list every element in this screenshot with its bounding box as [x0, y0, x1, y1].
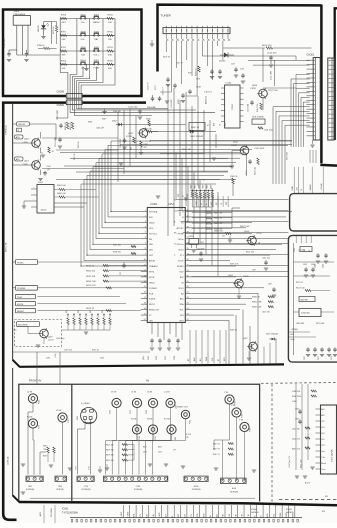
- svg-text:C113 4.7: C113 4.7: [204, 92, 213, 94]
- svg-text:17: 17: [144, 297, 146, 299]
- svg-text:Q007: Q007: [24, 161, 29, 163]
- svg-text:L.OUT(m) 4.7k: L.OUT(m) 4.7k: [289, 456, 291, 468]
- svg-text:XOUT: XOUT: [178, 261, 184, 263]
- svg-text:42: 42: [187, 210, 189, 212]
- svg-text:R118 10k: R118 10k: [255, 167, 257, 175]
- tuner connector pins with hooks: [165, 34, 167, 39]
- svg-text:PDMix: PDMix: [17, 262, 24, 264]
- AV box outline: [19, 384, 260, 501]
- svg-text:9: 9: [145, 254, 146, 256]
- AV box divider between FRONT AV and AV: [71, 384, 73, 502]
- svg-text:R056 10k: R056 10k: [86, 271, 96, 273]
- verticals feeding staircase from top area: [215, 134, 217, 148]
- svg-text:R106 2k: R106 2k: [230, 176, 237, 178]
- svg-text:17M: 17M: [68, 419, 70, 423]
- svg-text:R086 1K: R086 1K: [252, 297, 260, 299]
- svg-text:34C16: 34C16: [41, 210, 48, 212]
- ground under resistor stack: [105, 467, 109, 469]
- svg-text:PW2: PW2: [155, 436, 157, 440]
- svg-text:C113: C113: [246, 171, 248, 175]
- svg-text:S OUT: S OUT: [121, 511, 123, 518]
- svg-text:C1815: C1815: [256, 233, 262, 235]
- svg-text:PV2: PV2: [321, 445, 324, 447]
- svg-text:CPU: CPU: [168, 202, 174, 206]
- svg-text:LA7840: LA7840: [251, 511, 259, 514]
- IC601 pin pads: [71, 519, 72, 522]
- svg-text:(+5V): (+5V): [55, 353, 57, 358]
- svg-text:A02: A02: [321, 414, 324, 417]
- svg-text:36K: 36K: [62, 55, 66, 57]
- svg-text:SCL: SCL: [225, 123, 227, 126]
- svg-text:POWER: POWER: [149, 288, 157, 290]
- svg-text:R40? 10k: R40? 10k: [106, 444, 114, 446]
- svg-text:C3500: C3500: [232, 103, 234, 110]
- svg-text:R40? 10k: R40? 10k: [106, 460, 114, 462]
- svg-text:L104 100u: L104 100u: [264, 130, 273, 132]
- switch row rail y=35.4: [60, 34, 115, 36]
- svg-text:B IN: B IN: [153, 513, 155, 518]
- outer bundle verticals feeding lower rails: [273, 106, 310, 108]
- vertical wires right column: [295, 384, 297, 470]
- svg-text:R44? 75: R44? 75: [213, 449, 220, 451]
- wires FRONT AV jacks to strips: [32, 403, 34, 412]
- svg-text:Q00?: Q00?: [243, 338, 248, 340]
- capacitor C703: [26, 52, 28, 54]
- ground marks AV bottom rail: [21, 491, 25, 493]
- staircase upper horizontals from diode area: [124, 124, 186, 126]
- svg-text:FCA: FCA: [149, 292, 154, 295]
- svg-text:R011 4.7K: R011 4.7K: [86, 285, 96, 287]
- IC601 package top line: [70, 517, 302, 519]
- svg-text:24: 24: [187, 308, 189, 310]
- main board left border with bottom foot: [3, 102, 16, 520]
- svg-text:Q001: Q001: [128, 133, 134, 135]
- svg-text:R0?: R0?: [102, 310, 104, 313]
- svg-text:32: 32: [187, 264, 189, 266]
- svg-text:C IN: C IN: [231, 405, 236, 407]
- svg-text:R060 100: R060 100: [57, 193, 67, 195]
- svg-text:CN243: CN243: [18, 124, 26, 126]
- svg-text:5.0m: 5.0m: [321, 469, 325, 471]
- wires descending from tuner connector: [165, 41, 167, 52]
- woofer section dashed box: [15, 320, 62, 347]
- resistor R106 vertical: [198, 66, 200, 72]
- svg-text:B IN: B IN: [235, 513, 237, 518]
- svg-text:22: 22: [187, 319, 189, 321]
- svg-text:A01: A01: [321, 408, 324, 411]
- short verticals with ground near CN301 bottom: [309, 150, 311, 163]
- capacitor C0xx on PDMix line: [123, 263, 125, 265]
- svg-text:R0?: R0?: [78, 310, 80, 313]
- wire down-left region to AV: [36, 352, 38, 384]
- svg-text:R061 100: R061 100: [57, 185, 67, 187]
- svg-text:R751: R751: [61, 47, 67, 49]
- svg-text:R013 1K: R013 1K: [86, 308, 95, 310]
- svg-text:A3: A3: [199, 359, 202, 361]
- svg-text:C4?: C4?: [222, 236, 225, 238]
- svg-text:AV: AV: [146, 380, 149, 383]
- svg-text:R40? 10k: R40? 10k: [106, 455, 114, 457]
- svg-text:G IN: G IN: [229, 513, 231, 518]
- tuner connector internal pin ticks: [165, 29, 167, 33]
- svg-text:PW4: PW4: [110, 410, 112, 414]
- svg-text:CN008: CN008: [57, 90, 65, 93]
- horizontal rail lower-left y352: [13, 351, 150, 353]
- svg-text:X101 3.6MHZ: X101 3.6MHZ: [252, 117, 265, 119]
- svg-text:T-AT2106/206A: T-AT2106/206A: [62, 511, 78, 514]
- svg-text:C01?: C01?: [231, 64, 235, 66]
- svg-text:JS01: JS01: [28, 486, 32, 488]
- svg-text:C09?: C09?: [252, 270, 256, 272]
- svg-text:C44? 470: C44? 470: [262, 312, 270, 314]
- boxed label R02C 1K above D001: [189, 123, 205, 131]
- svg-text:VDD2: VDD2: [178, 288, 184, 290]
- ground below Q002: [230, 165, 234, 167]
- svg-text:MUTE: MUTE: [149, 304, 155, 306]
- svg-text:M3: M3: [325, 496, 328, 498]
- transistor Q009 woofer driver: [40, 329, 49, 338]
- svg-text:CN600: CN600: [57, 104, 65, 107]
- svg-text:R05?: R05?: [206, 185, 208, 189]
- ground under LED001: [41, 36, 45, 38]
- svg-text:5V1: 5V1: [321, 439, 324, 441]
- svg-text:R517 100: R517 100: [296, 288, 306, 290]
- switch row rail y=64.3: [60, 63, 115, 65]
- svg-text:27: 27: [187, 292, 189, 294]
- svg-text:JK200: JK200: [193, 486, 198, 488]
- svg-text:26: 26: [187, 297, 189, 299]
- svg-text:PW4: PW4: [39, 400, 41, 404]
- svg-text:RP21 10K: RP21 10K: [316, 323, 325, 325]
- ground rail under component row: [62, 329, 110, 331]
- svg-text:A 5(?): A 5(?): [305, 482, 310, 485]
- svg-text:C305: C305: [303, 264, 307, 266]
- svg-text:R043: R043: [88, 122, 92, 124]
- diode D001 1N4148 with label: [190, 130, 193, 133]
- X001 leads: [16, 26, 18, 55]
- inner board outline left (medium) with chamfers: [12, 104, 14, 360]
- signal label WOOFER: [17, 322, 40, 327]
- svg-text:Q00?: Q00?: [48, 337, 53, 339]
- transistor Q006: [32, 139, 41, 148]
- main board right border running through CN301: [320, 5, 337, 166]
- svg-text:SEL/TWR: SEL/TWR: [287, 151, 289, 160]
- junction dots staircase: [149, 140, 150, 141]
- svg-text:LED001: LED001: [38, 24, 40, 32]
- svg-text:IC606 LA7840: IC606 LA7840: [331, 448, 334, 462]
- svg-text:35: 35: [187, 248, 189, 250]
- region label R044 MB wire: [56, 149, 118, 151]
- svg-text:D00? 1N4148: D00? 1N4148: [266, 334, 278, 336]
- svg-text:FRONT AV: FRONT AV: [29, 380, 42, 383]
- svg-text:C044 22P: C044 22P: [96, 128, 105, 130]
- svg-text:PW6: PW6: [190, 420, 192, 424]
- verticals connecting rails to staircase zone: [175, 153, 177, 200]
- svg-text:PW8: PW8: [146, 410, 148, 414]
- svg-text:R44? 75: R44? 75: [213, 454, 220, 456]
- svg-text:R446 220k: R446 220k: [292, 396, 301, 398]
- switch grid right rail: [114, 19, 116, 65]
- svg-text:PRA/ADC: PRA/ADC: [149, 265, 158, 268]
- dashed fold line vertical right of AV box: [271, 384, 273, 505]
- svg-text:R064 MB: R064 MB: [147, 107, 156, 109]
- svg-text:KEY: KEY: [165, 513, 167, 518]
- node label A31: [15, 157, 24, 161]
- ground below Q006: [41, 154, 45, 156]
- svg-text:C306: C306: [311, 264, 315, 266]
- svg-text:R10?: R10?: [188, 73, 192, 75]
- dashed marks above bottom border right: [279, 499, 337, 501]
- svg-text:R755: R755: [61, 15, 67, 17]
- misc caps under tuner region: [235, 67, 237, 69]
- svg-text:TEST: TEST: [17, 297, 23, 299]
- svg-text:29: 29: [187, 281, 189, 283]
- thin rail above bottom border: [30, 497, 255, 499]
- svg-text:C101?: C101?: [48, 340, 54, 342]
- signal rails entering lower rounded box: [176, 199, 288, 201]
- svg-text:R OUT: R OUT: [186, 434, 191, 436]
- svg-text:C017 1?: C017 1?: [163, 87, 165, 95]
- svg-text:16: 16: [144, 292, 146, 294]
- crystal X101 box: [252, 119, 265, 124]
- svg-text:C42?: C42?: [158, 452, 162, 454]
- svg-text:R42?: R42?: [158, 447, 162, 449]
- svg-text:AFT: AFT: [213, 123, 216, 126]
- svg-text:MUTE: MUTE: [17, 304, 24, 306]
- svg-text:PP/NF: PP/NF: [178, 233, 185, 235]
- main board top border: [2, 101, 146, 104]
- ground below switch grid: [84, 68, 88, 70]
- svg-text:C025: C025: [148, 356, 150, 360]
- svg-text:KEYB: KEYB: [149, 277, 155, 279]
- svg-text:V IN: V IN: [239, 420, 243, 422]
- svg-text:RESET: RESET: [17, 311, 25, 313]
- fan-out wires from switch grid to CN008: [60, 64, 68, 94]
- svg-text:GND: GND: [204, 513, 206, 518]
- svg-text:30: 30: [187, 275, 189, 277]
- svg-text:R05?: R05?: [210, 185, 212, 189]
- svg-text:BLK: BLK: [180, 277, 184, 279]
- long rail y56 to CN301: [202, 55, 296, 57]
- svg-text:VIDEO OUT: VIDEO OUT: [177, 407, 189, 409]
- connector strip HJ06: [221, 478, 247, 483]
- svg-text:Q003: Q003: [252, 85, 258, 87]
- svg-text:R117 5.6K: R117 5.6K: [268, 90, 278, 92]
- long stubs from tuner area into CN301 top pins: [248, 60, 310, 62]
- svg-text:C413: C413: [295, 409, 299, 411]
- svg-text:C03? 104: C03? 104: [64, 350, 72, 352]
- svg-text:S-M: S-M: [81, 54, 85, 56]
- svg-text:Blank: Blank: [321, 463, 326, 465]
- svg-text:X002: X002: [38, 182, 44, 184]
- ground below Q007: [38, 178, 42, 180]
- switch row rail y=51.0: [60, 50, 115, 52]
- svg-text:PW9: PW9: [250, 428, 252, 432]
- svg-text:L OUT: L OUT: [164, 392, 171, 394]
- wires from CN600 into main board: [70, 109, 215, 113]
- svg-text:SA A/D: SA A/D: [309, 184, 312, 191]
- capacitor C016: [219, 69, 221, 71]
- svg-text:CJD1: CJD1: [84, 486, 89, 488]
- svg-text:C010 410: C010 410: [267, 52, 277, 54]
- LED loop wire to R769: [43, 22, 45, 26]
- svg-text:13: 13: [144, 275, 146, 277]
- svg-text:CN01: CN01: [136, 486, 141, 488]
- wires from CPU bottom pins down: [151, 323, 153, 335]
- svg-text:18: 18: [144, 303, 146, 305]
- svg-text:20: 20: [144, 313, 146, 315]
- svg-text:R067 5.6K: R067 5.6K: [240, 226, 250, 228]
- ground cluster x150 y45: [150, 43, 154, 45]
- wire bus from X001 to switch rail: [8, 50, 10, 52]
- svg-text:IC001: IC001: [151, 202, 158, 206]
- verticals from CN600 lines down into staircase: [117, 112, 119, 182]
- svg-text:29K: 29K: [108, 39, 112, 41]
- svg-text:B+: B+: [206, 203, 208, 205]
- svg-text:PW5: PW5: [242, 414, 244, 418]
- rounded box upper right (empty label box): [290, 194, 337, 231]
- svg-text:SOUND(B): SOUND(B): [26, 489, 35, 491]
- svg-text:A IN: A IN: [145, 514, 148, 518]
- svg-text:SC2: SC2: [321, 433, 325, 435]
- svg-text:R021 1M: R021 1M: [182, 149, 191, 151]
- svg-text:62K: 62K: [108, 68, 112, 70]
- svg-text:PLT/SCL: PLT/SCL: [149, 233, 158, 235]
- svg-text:ZD003: ZD003: [219, 61, 226, 63]
- zener ZD003: [224, 53, 228, 58]
- svg-text:VDD: VDD: [197, 513, 199, 518]
- svg-text:R IN: R IN: [223, 513, 225, 518]
- svg-text:VDD: VDD: [149, 228, 154, 230]
- svg-text:R758: R758: [107, 60, 113, 62]
- svg-text:8: 8: [145, 248, 146, 250]
- signal label box MUTE: [16, 301, 36, 305]
- svg-text:L201: L201: [301, 249, 305, 251]
- small box B below CN243: [17, 128, 22, 132]
- svg-text:R05?: R05?: [202, 185, 204, 189]
- svg-text:VOL-: VOL-: [80, 39, 85, 41]
- svg-text:WOOFER: WOOFER: [18, 324, 28, 326]
- svg-text:MENU: MENU: [93, 22, 100, 24]
- switch row rail y=18.5: [60, 18, 115, 20]
- ground below Q008: [247, 357, 251, 359]
- svg-text:+12V: +12V: [174, 210, 179, 212]
- ground right of CN600: [102, 111, 106, 113]
- svg-text:1/8: 1/8: [186, 437, 188, 439]
- svg-text:EXT: EXT: [178, 194, 180, 197]
- main section bottom border: [19, 364, 284, 366]
- svg-text:R41?: R41?: [143, 447, 147, 449]
- svg-text:SCL/SDA: SCL/SDA: [50, 508, 53, 517]
- svg-text:IC605: IC605: [286, 509, 293, 511]
- svg-text:V2 IN: V2 IN: [56, 410, 62, 412]
- svg-text:R40? 10k: R40? 10k: [106, 450, 114, 452]
- svg-text:R OUT: R OUT: [164, 419, 171, 421]
- svg-text:R019 100: R019 100: [113, 244, 121, 246]
- ground under C703: [24, 59, 28, 61]
- svg-text:RESET: RESET: [177, 266, 184, 268]
- svg-text:C IN: C IN: [248, 513, 250, 518]
- svg-text:31: 31: [187, 270, 189, 272]
- svg-text:R750: R750: [61, 60, 67, 62]
- svg-text:VDD1: VDD1: [178, 250, 184, 252]
- signal label box RESET: [16, 308, 36, 312]
- svg-text:15: 15: [144, 286, 146, 288]
- svg-text:5: 5: [145, 232, 146, 234]
- svg-text:C028: C028: [174, 356, 176, 360]
- svg-text:C027: C027: [165, 356, 167, 360]
- svg-text:R-BUS: R-BUS: [149, 299, 156, 301]
- connector strip JK50: [55, 476, 67, 481]
- svg-text:AIN-IN: AIN-IN: [149, 260, 156, 263]
- connector CN301 body: [313, 58, 320, 141]
- svg-text:4: 4: [145, 226, 146, 228]
- svg-text:Lbat: Lbat: [321, 450, 325, 453]
- svg-text:+12V(A): +12V(A): [320, 183, 323, 190]
- svg-text:C005 220P: C005 220P: [57, 109, 59, 120]
- svg-text:L101 1MH: L101 1MH: [271, 70, 273, 80]
- svg-text:VDD: VDD: [179, 271, 184, 273]
- ground left of X002: [22, 205, 26, 207]
- svg-text:VIDEO(R): VIDEO(R): [56, 489, 64, 491]
- svg-text:AFT/SC: AFT/SC: [176, 227, 184, 230]
- inner outline continues to AV chamfer: [12, 368, 14, 496]
- AV section bottom thick border: [19, 502, 337, 505]
- diode D00x near right: [272, 338, 275, 341]
- transistor Q005: [235, 279, 244, 288]
- svg-text:C41?: C41?: [143, 452, 147, 454]
- svg-text:GND3: GND3: [149, 282, 155, 284]
- grounds right column: [295, 475, 299, 477]
- ground pair in rounded box2: [316, 260, 320, 262]
- svg-text:Y IN: Y IN: [242, 514, 244, 518]
- rounded box lower right (video section): [288, 235, 337, 362]
- svg-text:10: 10: [144, 259, 146, 261]
- svg-text:R02C 1K: R02C 1K: [191, 127, 200, 129]
- extra caps rounded box2 middle: [305, 267, 307, 269]
- svg-text:MSD: MSD: [77, 415, 79, 420]
- rail under resistor network: [193, 206, 213, 208]
- wires from Q006 Q007 heading right: [42, 137, 118, 139]
- svg-text:R0?: R0?: [90, 310, 92, 313]
- svg-text:LM01 880: LM01 880: [296, 323, 304, 325]
- svg-text:X001: X001: [14, 10, 20, 13]
- svg-text:R09: R09: [175, 437, 177, 440]
- transistor Q001 C2236: [139, 129, 148, 138]
- svg-text:AUD: AUD: [266, 513, 269, 518]
- connector strip CN01 long: [104, 476, 168, 481]
- svg-text:C441 104: C441 104: [262, 258, 270, 260]
- ground below CN301: [312, 140, 314, 144]
- svg-text:VDP: VDP: [149, 255, 154, 257]
- svg-text:V1 IN: V1 IN: [111, 392, 117, 394]
- svg-text:GND: GND: [292, 186, 294, 191]
- svg-text:C115 560P: C115 560P: [254, 148, 265, 150]
- svg-text:JK50: JK50: [58, 486, 62, 488]
- horizontal wire to R012 and CN301: [223, 47, 265, 49]
- svg-text:R44? 75: R44? 75: [213, 443, 220, 445]
- tuner board frame (top box): [158, 5, 322, 72]
- svg-text:IC606: IC606: [251, 509, 258, 511]
- svg-text:R51? 1K: R51? 1K: [296, 282, 303, 284]
- svg-text:C00? 220P: C00? 220P: [120, 138, 122, 148]
- svg-text:R768 10: R768 10: [37, 45, 45, 47]
- svg-text:R754: R754: [107, 15, 113, 17]
- svg-text:1.8m: 1.8m: [321, 457, 325, 459]
- ground marks under tuner caps: [166, 84, 170, 86]
- svg-text:Q006: Q006: [24, 139, 29, 141]
- connector strip CJD1: [77, 476, 94, 481]
